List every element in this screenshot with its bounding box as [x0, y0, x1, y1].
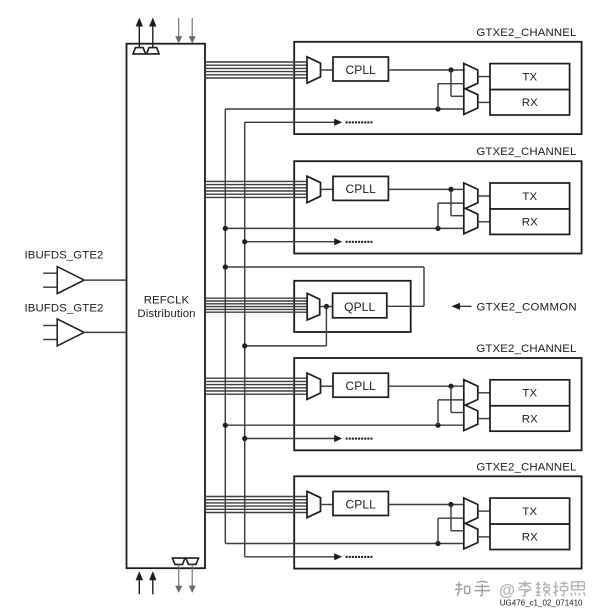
- svg-text:Distribution: Distribution: [137, 308, 195, 320]
- wire TX mux to TX 3: [478, 392, 490, 394]
- mux TX clock select 4: [464, 498, 478, 524]
- arrow northbound refclk in 1 (bottom): [149, 571, 156, 594]
- wire CPLL 2 output to TX mux: [388, 188, 463, 190]
- wire RX mux to RX 1: [478, 101, 490, 103]
- block RX 1: [490, 90, 570, 115]
- svg-text:GTXE2_CHANNEL: GTXE2_CHANNEL: [476, 343, 576, 355]
- node CPLL out junction 4: [448, 502, 453, 507]
- mux TX clock select 3: [464, 380, 478, 406]
- label REFCLK Distribution: [137, 294, 195, 320]
- wire TX mux to TX 1: [478, 76, 490, 78]
- wire QPLL clock into channel 2: [225, 227, 463, 229]
- node QPLL refclk junction: [324, 304, 329, 309]
- arrow northbound refclk 1: [149, 18, 156, 48]
- mux CPLL refclk select 3: [307, 373, 321, 399]
- node net QPLLOUT tap channel 2: [223, 226, 228, 231]
- svg-text:REFCLK: REFCLK: [144, 294, 190, 306]
- wire QPLL clock to TX mux 4: [438, 518, 464, 543]
- mux RX clock select 4: [464, 523, 478, 549]
- GTXE2_CHANNEL 2 box: [294, 161, 581, 253]
- node net QPLLOUT join: [223, 264, 228, 269]
- svg-text:@: @: [499, 582, 515, 600]
- wire mux to CPLL 4: [321, 504, 334, 506]
- wire refclk bundle to CPLL mux 2: [205, 181, 307, 197]
- arrow northbound refclk 0: [136, 18, 143, 48]
- svg-text:TX: TX: [522, 506, 537, 518]
- wire TX mux to TX 2: [478, 195, 490, 197]
- svg-text:TX: TX: [522, 72, 537, 84]
- GTXE2_COMMON box: [294, 281, 411, 332]
- svg-text:IBUFDS_GTE2: IBUFDS_GTE2: [25, 250, 104, 262]
- node CPLL out junction 1: [448, 67, 453, 72]
- wire QPLL refclk arrow into channel 4: [245, 553, 373, 560]
- node CPLL out junction 2: [448, 187, 453, 192]
- node QPLL clock junction 3: [435, 423, 440, 428]
- wire QPLL clock into channel 4: [225, 543, 463, 545]
- node net QPLLREF join: [242, 343, 247, 348]
- svg-text:TX: TX: [522, 191, 537, 203]
- buffer IBUFDS_GTE2 U2: [43, 319, 84, 346]
- GTXE2_CHANNEL 1 box: [294, 42, 581, 134]
- wire RX mux to RX 3: [478, 418, 490, 420]
- svg-text:RX: RX: [522, 217, 538, 229]
- block TX 3: [490, 380, 570, 406]
- wire mux to CPLL 3: [321, 385, 334, 387]
- mux north refclk out 0 (top): [133, 48, 146, 54]
- wire RX mux to RX 2: [478, 221, 490, 223]
- block TX 4: [490, 498, 570, 524]
- wire CPLL 1 output to TX mux: [388, 69, 463, 71]
- wire QPLL clock to TX mux 1: [438, 84, 464, 109]
- svg-text:GTXE2_CHANNEL: GTXE2_CHANNEL: [476, 461, 576, 473]
- wire CPLL out to RX mux 3: [451, 386, 464, 412]
- mux QPLL refclk select: [307, 293, 320, 320]
- wire refclk bundle to CPLL mux 1: [205, 62, 307, 78]
- svg-text:CPLL: CPLL: [345, 182, 376, 196]
- wire refclk bundle to CPLL mux 4: [205, 497, 307, 513]
- node QPLL clock junction 2: [435, 226, 440, 231]
- pll CPLL 2 box: [333, 176, 388, 200]
- arrow pointing to GTXE2_COMMON: [452, 303, 472, 310]
- arrow southbound refclk 1 (gray): [189, 564, 196, 593]
- node net QPLLREF tap channel 3: [242, 436, 247, 441]
- wire U1 output to REFCLK box: [84, 279, 126, 281]
- wire U2 output to REFCLK box: [84, 331, 126, 333]
- wire mux to CPLL 2: [321, 188, 334, 190]
- watermark zhihu: [455, 581, 585, 600]
- node net QPLLOUT tap channel 3: [223, 423, 228, 428]
- svg-text:RX: RX: [522, 413, 538, 425]
- mux TX clock select 1: [464, 64, 478, 90]
- mux CPLL refclk select 4: [307, 491, 321, 517]
- node CPLL out junction 3: [448, 384, 453, 389]
- GTXE2_CHANNEL 3 box: [294, 358, 581, 450]
- mux RX clock select 3: [464, 404, 478, 430]
- arrow southbound refclk in 1 (gray): [189, 18, 196, 43]
- mux CPLL refclk select 1: [307, 57, 321, 83]
- wire QPLL mux to QPLL: [320, 306, 333, 308]
- mux south refclk out 1 (bottom): [186, 558, 199, 564]
- wire CPLL 4 output to TX mux: [388, 504, 463, 506]
- svg-text:RX: RX: [522, 97, 538, 109]
- svg-text:RX: RX: [522, 532, 538, 544]
- wire QPLL refclk arrow into channel 1: [245, 119, 373, 126]
- wire CPLL 3 output to TX mux: [388, 385, 463, 387]
- wire QPLL clock into channel 1: [225, 108, 463, 110]
- wire QPLL clock into channel 3: [225, 424, 463, 426]
- wire mux to CPLL 1: [321, 69, 334, 71]
- pll CPLL 1 box: [333, 57, 388, 81]
- svg-text:IBUFDS_GTE2: IBUFDS_GTE2: [25, 302, 104, 314]
- wire QPLL refclk arrow into channel 3: [245, 435, 373, 442]
- REFCLK Distribution box: [127, 44, 206, 569]
- mux north refclk out 1 (top): [147, 48, 160, 54]
- block RX 3: [490, 406, 570, 431]
- wire QPLL refclk arrow into channel 2: [245, 238, 373, 245]
- mux south refclk out 0 (bottom): [172, 558, 185, 564]
- block RX 2: [490, 209, 570, 234]
- svg-text:GTXE2_COMMON: GTXE2_COMMON: [477, 302, 577, 314]
- block TX 2: [490, 183, 570, 209]
- svg-text:TX: TX: [522, 388, 537, 400]
- svg-text:CPLL: CPLL: [345, 63, 376, 77]
- mux RX clock select 2: [464, 208, 478, 234]
- wire QPLL refclk down to net QPLLREF: [245, 307, 327, 346]
- mux CPLL refclk select 2: [307, 176, 321, 202]
- wire net QPLLREF vertical: [244, 122, 246, 557]
- svg-text:CPLL: CPLL: [345, 379, 376, 393]
- svg-text:GTXE2_CHANNEL: GTXE2_CHANNEL: [476, 146, 576, 158]
- node QPLL clock junction 4: [435, 541, 440, 546]
- arrow southbound refclk in 0 (gray): [175, 18, 182, 43]
- block RX 4: [490, 524, 570, 549]
- pll QPLL box: [333, 293, 387, 318]
- pll CPLL 3 box: [333, 373, 388, 397]
- svg-text:CPLL: CPLL: [345, 497, 376, 511]
- wire RX mux to RX 4: [478, 536, 490, 538]
- arrow southbound refclk 0 (gray): [175, 564, 182, 593]
- node QPLL clock junction 1: [435, 106, 440, 111]
- wire net QPLLOUT vertical: [224, 109, 226, 544]
- mux RX clock select 1: [464, 88, 478, 114]
- mux TX clock select 2: [464, 183, 478, 209]
- svg-text:UG476_c1_02_071410: UG476_c1_02_071410: [500, 599, 583, 608]
- wire CPLL out to RX mux 1: [451, 70, 464, 96]
- wire CPLL out to RX mux 4: [451, 505, 464, 531]
- GTXE2_CHANNEL 4 box: [294, 476, 581, 568]
- arrow northbound refclk in 0 (bottom): [136, 571, 143, 594]
- wire QPLL clock to TX mux 3: [438, 400, 464, 425]
- wire refclk bundle to CPLL mux 3: [205, 378, 307, 394]
- svg-text:GTXE2_CHANNEL: GTXE2_CHANNEL: [476, 27, 576, 39]
- buffer IBUFDS_GTE2 U1: [43, 267, 84, 294]
- svg-text:QPLL: QPLL: [344, 300, 375, 314]
- wire QPLL clock to TX mux 2: [438, 203, 464, 228]
- wire TX mux to TX 4: [478, 510, 490, 512]
- node net QPLLREF tap channel 2: [242, 239, 247, 244]
- wire CPLL out to RX mux 2: [451, 189, 464, 215]
- wire refclk bundle to QPLL mux: [205, 298, 307, 312]
- block TX 1: [490, 64, 570, 90]
- pll CPLL 4 box: [333, 492, 388, 516]
- wire QPLL output loop to net QPLLOUT: [225, 267, 424, 306]
